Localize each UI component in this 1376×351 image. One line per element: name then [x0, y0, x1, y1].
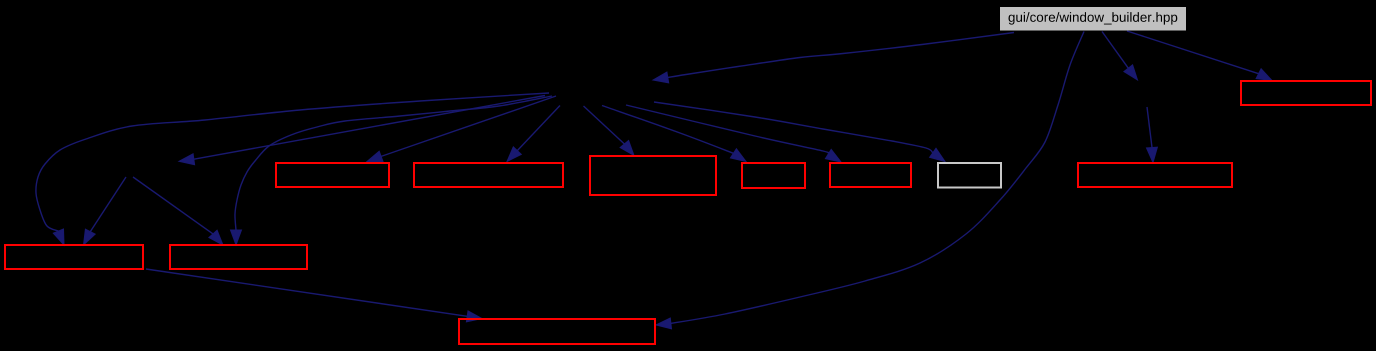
box L1 (lower left) — [5, 245, 143, 269]
box R5 — [830, 163, 911, 187]
edge window_builder.hpp -> hub3 node — [1102, 32, 1138, 81]
edge hub3 -> box R7 — [1147, 107, 1158, 163]
node gui/core/window_builder.hpp (current file, gray) — [1000, 7, 1186, 31]
edge window_builder.hpp -> hub node — [653, 33, 1014, 83]
edge hub -> box R1 — [367, 96, 556, 162]
edge hub -> white box W6 — [654, 102, 945, 162]
box R4 — [742, 163, 805, 188]
box R1 — [276, 163, 389, 187]
edge hub -> box R2 — [507, 106, 560, 162]
edge hub -> box L1 (long left swoosh) — [36, 93, 549, 245]
edge window_builder.hpp -> bottom box B — [656, 32, 1084, 329]
edge hub2 -> box L2 — [133, 177, 223, 245]
edge box L1 -> bottom box B — [146, 269, 482, 322]
edge hub -> box R5 — [626, 105, 841, 162]
edge hub -> box R3 — [584, 106, 635, 156]
edge hub -> hub2 node — [179, 96, 545, 165]
box R8 (top right) — [1241, 81, 1371, 105]
edge hub -> box L2 (curved) — [231, 96, 553, 245]
bottom box B — [459, 319, 655, 344]
edge window_builder.hpp -> box R8 — [1127, 31, 1272, 81]
box R2 — [414, 163, 563, 187]
edge hub2 -> box L1 — [84, 177, 127, 245]
box R7 — [1078, 163, 1232, 187]
box R3 (two-line) — [590, 156, 716, 195]
edge hub -> box R4 — [602, 106, 746, 162]
box L2 (lower left second) — [170, 245, 307, 269]
white box W6 — [938, 163, 1001, 188]
